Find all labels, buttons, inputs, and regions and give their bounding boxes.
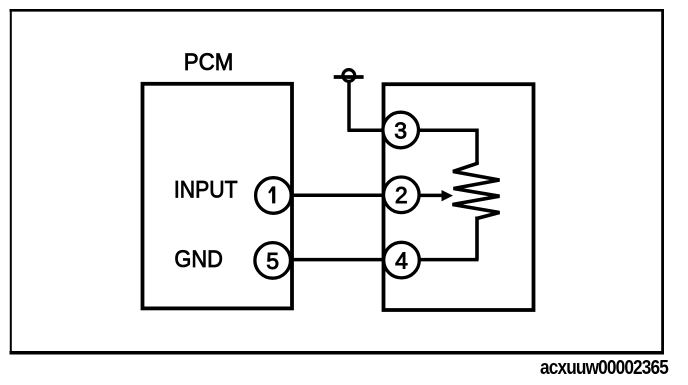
wiper arrow from pin 2: [402, 190, 453, 201]
wire: pin 5 to pin 4 and to resistor bottom: [272, 258, 479, 262]
svg-text:3: 3: [394, 117, 407, 143]
svg-text:5: 5: [266, 248, 279, 274]
sensor module box: [384, 84, 534, 310]
pin 2: [384, 177, 420, 213]
pin 3: [383, 112, 419, 148]
wire: pin 1 to pin 2: [273, 193, 402, 197]
wire: power to pin 3: [347, 129, 392, 133]
pin 4: [384, 242, 420, 278]
PCM module box: [143, 84, 293, 309]
svg-text:GND: GND: [174, 245, 223, 272]
svg-text:2: 2: [395, 182, 408, 208]
potentiometer resistive element: [453, 162, 500, 260]
wire: power symbol down: [347, 83, 351, 131]
pin 1: [256, 178, 292, 214]
power symbol B+: [334, 70, 364, 82]
svg-text:acxuuw00002365: acxuuw00002365: [540, 357, 668, 380]
pin 5: [255, 243, 291, 279]
svg-text:4: 4: [395, 248, 408, 274]
svg-text:INPUT: INPUT: [174, 175, 238, 203]
svg-text:PCM: PCM: [184, 48, 234, 75]
wire: pin 3 to resistor top: [401, 130, 477, 164]
